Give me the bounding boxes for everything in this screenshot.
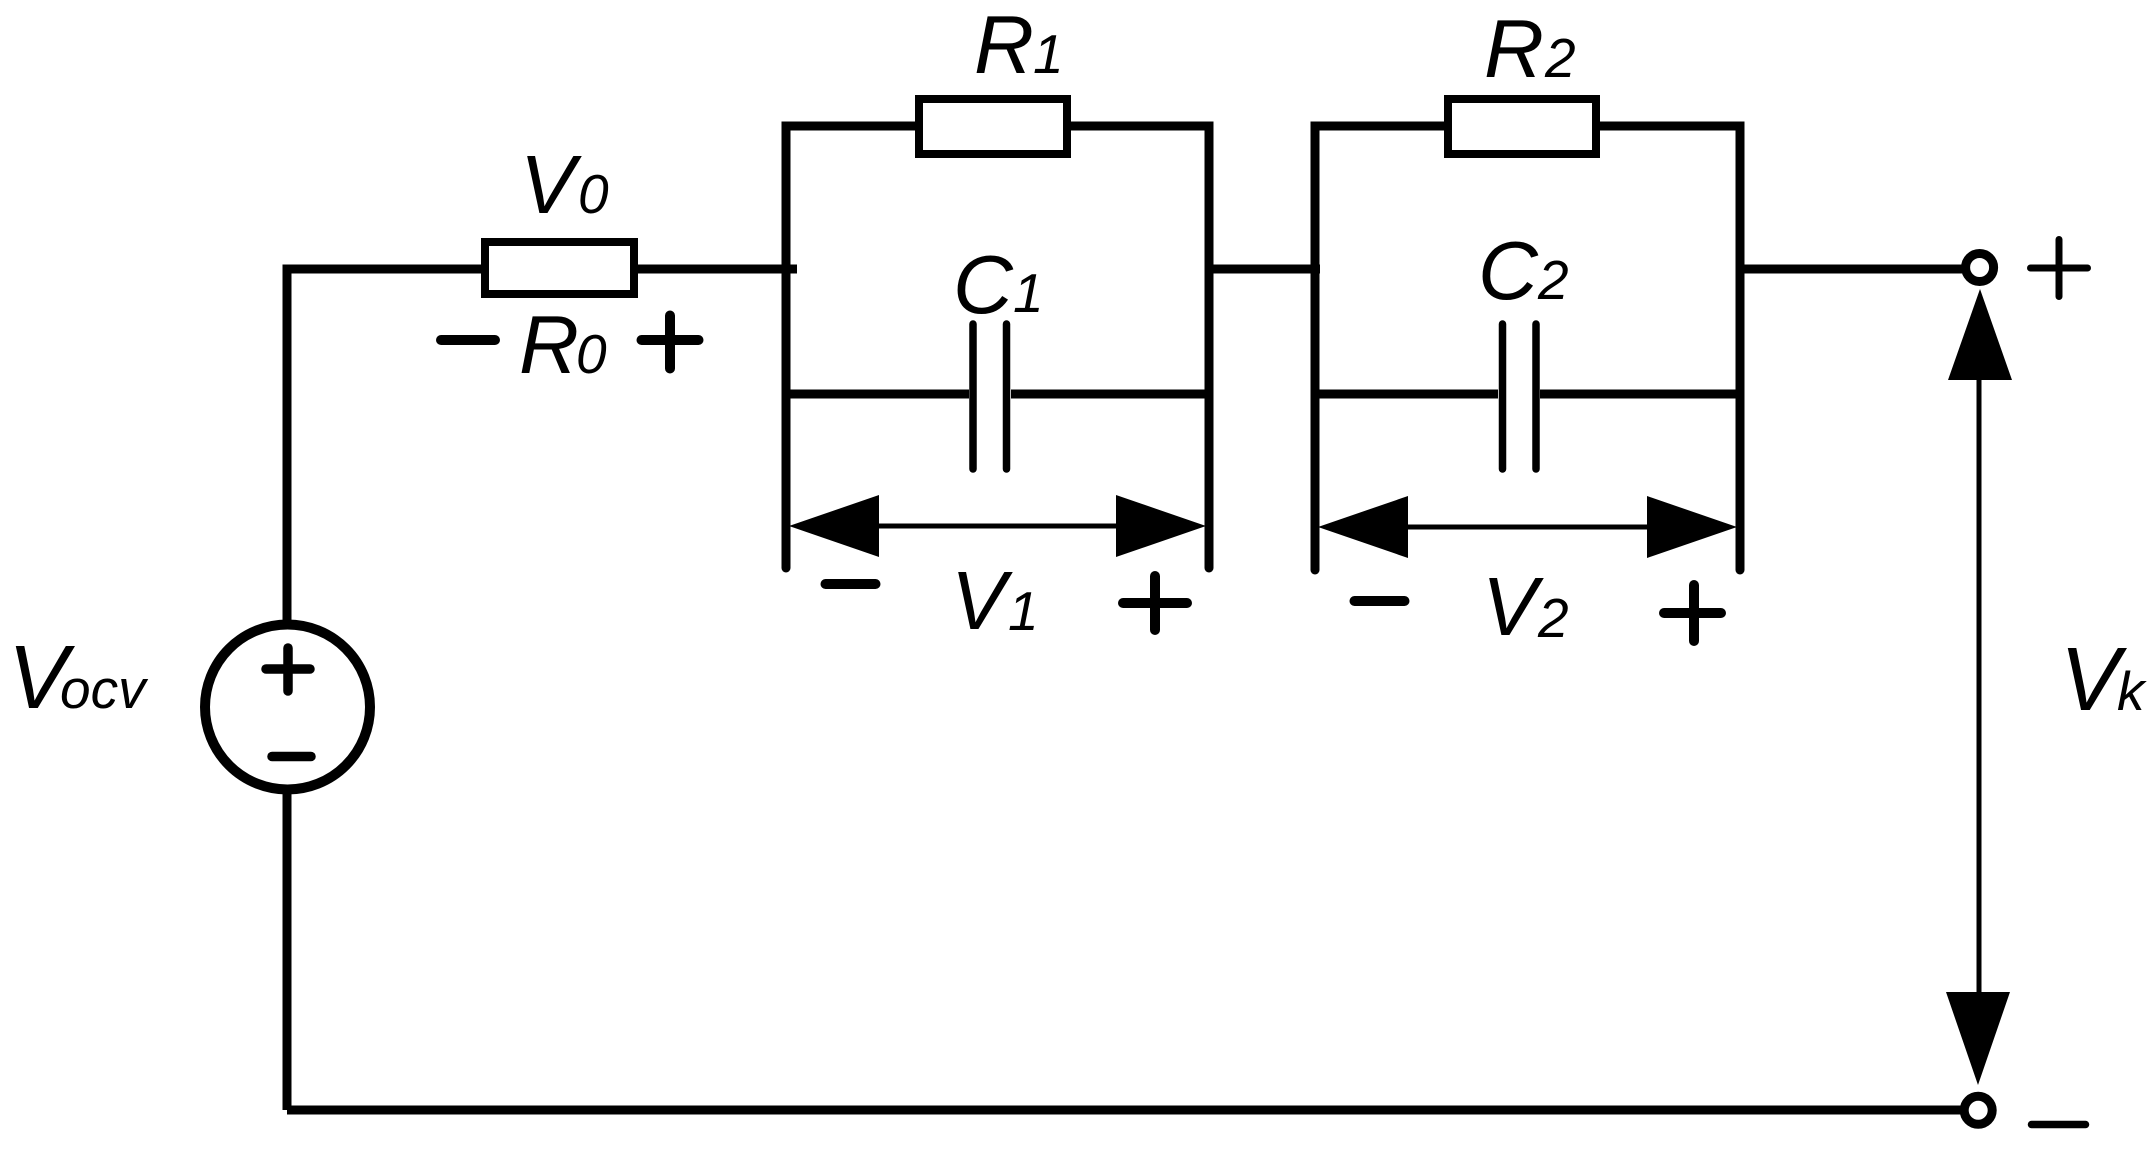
svg-text:0: 0 [576,323,607,385]
svg-text:2: 2 [1544,27,1576,89]
svg-text:R: R [1484,2,1544,95]
svg-text:V: V [951,554,1013,647]
svg-text:1: 1 [1008,580,1039,642]
svg-text:2: 2 [1537,249,1569,311]
svg-text:1: 1 [1013,262,1044,324]
svg-text:2: 2 [1537,587,1569,649]
svg-text:R: R [974,0,1034,91]
svg-text:0: 0 [578,163,609,225]
svg-text:k: k [2117,660,2147,722]
svg-text:R: R [519,298,579,391]
svg-text:V: V [520,138,582,231]
svg-text:C: C [1478,224,1539,317]
svg-text:1: 1 [1033,23,1064,85]
svg-text:ocv: ocv [60,658,149,720]
svg-text:V: V [1482,560,1544,653]
svg-text:C: C [953,238,1014,331]
